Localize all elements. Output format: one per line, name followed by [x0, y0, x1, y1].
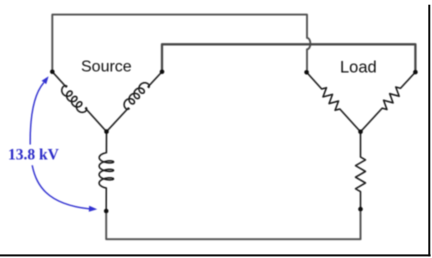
svg-text:13.8 kV: 13.8 kV	[8, 147, 60, 164]
svg-text:Load: Load	[340, 58, 377, 76]
svg-text:Source: Source	[81, 59, 132, 76]
